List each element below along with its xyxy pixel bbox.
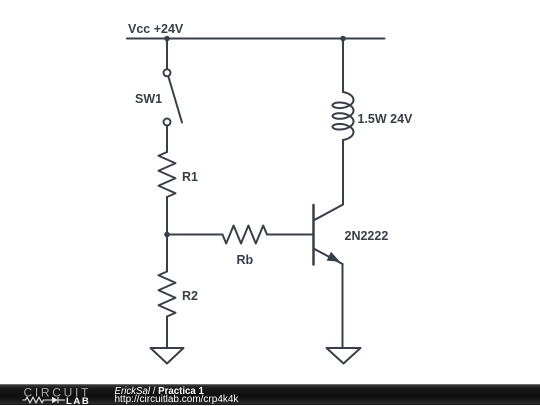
svg-text:1.5W 24V: 1.5W 24V (358, 112, 414, 126)
wire: top Vcc rail (127, 38, 385, 40)
svg-text:R1: R1 (182, 170, 198, 184)
transistor Q1 emitter diagonal (314, 249, 343, 265)
wire: Rb to base (267, 234, 314, 236)
switch SW1 bottom contact (164, 119, 171, 126)
credit text (115, 388, 239, 405)
svg-text:2N2222: 2N2222 (345, 229, 389, 243)
wire: node A to Rb (167, 234, 223, 236)
node: rail-switch junction (164, 36, 170, 42)
CircuitLab logo (18, 384, 118, 406)
wire: R1 to node A (166, 197, 168, 235)
svg-text:Vcc +24V: Vcc +24V (128, 22, 184, 36)
ground (right) (327, 348, 361, 364)
svg-text:Rb: Rb (237, 253, 254, 267)
transistor Q1 collector diagonal (314, 205, 344, 221)
inductor L1 coil (333, 92, 354, 140)
wire: R2 to ground (166, 317, 168, 349)
switch SW1 top contact (164, 69, 171, 76)
node A junction dot (164, 232, 170, 238)
resistor R2 (159, 272, 176, 317)
wire: rail to coil (342, 39, 344, 93)
svg-text:R2: R2 (182, 289, 198, 303)
wire: rail to switch top (166, 39, 168, 70)
wire: emitter to ground (342, 264, 344, 348)
svg-text:SW1: SW1 (135, 92, 162, 106)
transistor Q1 emitter arrow (327, 252, 340, 262)
node: rail-inductor junction (340, 36, 346, 42)
transistor Q1 base bar (312, 205, 315, 265)
resistor R1 (159, 152, 176, 197)
wire: node A to R2 (166, 235, 168, 272)
ground (left) (151, 348, 184, 364)
svg-text:LAB: LAB (66, 396, 90, 406)
footer bar (0, 384, 540, 405)
wire: collector to coil (342, 140, 344, 205)
wire: switch to R1 (166, 126, 168, 153)
resistor Rb (223, 226, 268, 244)
switch SW1 lever (169, 77, 183, 123)
